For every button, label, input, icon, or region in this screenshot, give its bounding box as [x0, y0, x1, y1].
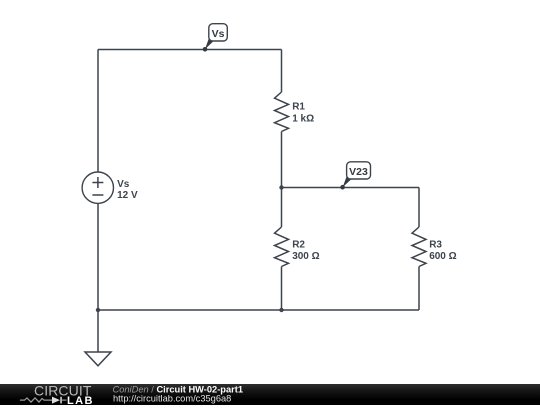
svg-text:R3: R3 [429, 239, 442, 250]
svg-text:V23: V23 [349, 166, 368, 178]
svg-text:600 Ω: 600 Ω [429, 251, 456, 262]
svg-text:Vs: Vs [117, 179, 130, 190]
svg-text:1 kΩ: 1 kΩ [292, 113, 314, 124]
svg-text:R2: R2 [292, 239, 305, 250]
svg-text:12 V: 12 V [117, 190, 138, 201]
svg-text:300 Ω: 300 Ω [292, 251, 319, 262]
svg-text:R1: R1 [292, 102, 305, 113]
svg-text:http://circuitlab.com/c35g6a8: http://circuitlab.com/c35g6a8 [113, 393, 231, 403]
svg-text:LAB: LAB [67, 395, 94, 405]
svg-text:Vs: Vs [212, 28, 225, 40]
